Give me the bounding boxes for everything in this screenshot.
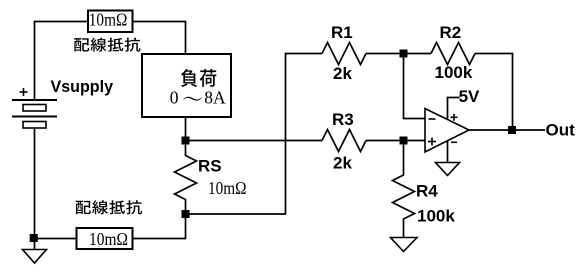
svg-text:100k: 100k (417, 207, 455, 226)
svg-text:0: 0 (170, 87, 179, 107)
wire op-amp negative supply to ground (447, 141, 449, 163)
op-amp positive supply plus (451, 116, 458, 118)
svg-text:10mΩ: 10mΩ (208, 178, 247, 198)
svg-text:10mΩ: 10mΩ (89, 229, 128, 249)
svg-text:10mΩ: 10mΩ (89, 10, 128, 30)
label wiring-resistance (hairosen-teikou) bottom (76, 201, 91, 214)
value 0-8A wave dash (183, 97, 201, 101)
ground under op-amp (436, 163, 460, 176)
wire top box to load box (133, 22, 186, 55)
resistor R4 (393, 141, 415, 238)
resistor R2 (431, 43, 475, 65)
wire battery top to wiring-resistance box (35, 22, 89, 101)
wire node to op-amp inverting input (404, 54, 426, 119)
op-amp non-inverting input plus (428, 141, 436, 143)
svg-text:R2: R2 (440, 23, 462, 42)
junction output node (508, 126, 516, 134)
wire R3 to op-amp non-inverting input (366, 140, 425, 142)
op-amp negative supply minus (451, 141, 457, 143)
wire R1 to R2 through node (366, 53, 431, 55)
wire load box bottom to node RS top (185, 117, 187, 141)
wire node RS bottom right and up to R1 (186, 54, 323, 215)
svg-text:5V: 5V (459, 87, 480, 106)
junction RS top node (182, 137, 190, 145)
wiring-resistance box top (88, 11, 133, 33)
wire 5V supply tick to op-amp top (448, 98, 460, 121)
junction R3-R4 node (400, 137, 408, 145)
resistor R1 (322, 43, 366, 65)
op-amp inverting input minus (429, 118, 436, 120)
svg-text:RS: RS (198, 157, 222, 176)
svg-text:Vsupply: Vsupply (51, 77, 114, 96)
svg-text:2k: 2k (333, 154, 352, 173)
op-amp U1 triangle (425, 109, 469, 153)
label load (fuka) (181, 69, 197, 87)
junction RS bottom node (182, 210, 190, 218)
resistor R3 (322, 130, 366, 152)
resistor RS (175, 141, 197, 215)
battery plus sign (20, 88, 28, 96)
wire bottom rail to battery ground node (35, 238, 77, 240)
label wiring-resistance (hairosen-teikou) top (74, 38, 89, 51)
wire battery bottom to ground node (34, 128, 36, 250)
svg-text:R4: R4 (416, 182, 438, 201)
wiring-resistance box bottom (77, 228, 133, 249)
junction battery ground node (30, 234, 38, 242)
wire R2 right down to output node (475, 54, 513, 131)
load box (142, 54, 231, 117)
svg-text:Out: Out (546, 121, 576, 140)
svg-text:R3: R3 (332, 110, 354, 129)
svg-text:R1: R1 (331, 23, 353, 42)
junction R1-R2 node (400, 50, 408, 58)
ground under battery (23, 250, 47, 264)
wire node RS top to R3 (186, 140, 323, 142)
wire op-amp output to Out (469, 129, 545, 131)
wire node RS bottom down to bottom rail (133, 214, 186, 239)
svg-text:100k: 100k (435, 63, 473, 82)
ground under R4 (391, 238, 418, 252)
battery Vsupply plates (12, 100, 57, 117)
svg-text:2k: 2k (333, 64, 352, 83)
svg-text:8A: 8A (204, 87, 226, 107)
